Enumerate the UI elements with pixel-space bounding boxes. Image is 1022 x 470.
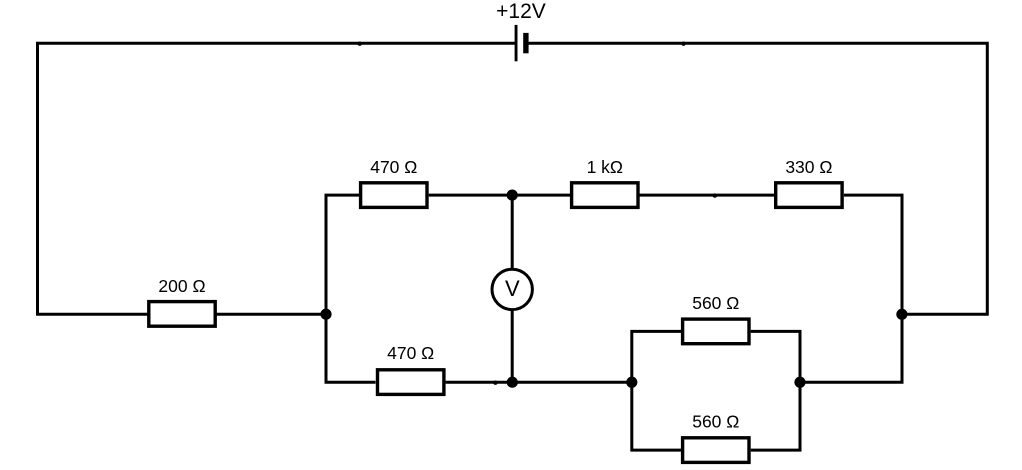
resistor R1 200 ohm: [149, 302, 215, 327]
wire junction nub on top wire right of battery: [681, 42, 685, 46]
node E junction dot: [626, 377, 637, 388]
wire from node E down then right to 560 ohm bottom left terminal: [632, 382, 681, 450]
wire from battery positive plate, left along top, down left side, to 200 ohm resistor left terminal: [38, 43, 517, 314]
wire from 470 ohm bottom right terminal to node C: [446, 381, 513, 384]
wire from node A down to 470 ohm bottom resistor left terminal: [326, 314, 376, 382]
svg-text:+12V: +12V: [496, 0, 546, 23]
wire from 200 ohm right terminal to node A: [215, 313, 326, 316]
resistor R7 560 ohm (bottom of parallel pair): [683, 438, 749, 463]
wire from node D down and left to node F: [800, 314, 902, 382]
wire from 1 kohm right terminal to 330 ohm left terminal: [640, 194, 775, 197]
wire from node E up then right to 560 ohm top left terminal: [632, 331, 681, 382]
voltmeter top lead wire from node B: [511, 195, 514, 269]
wire from 560 ohm bottom right terminal up to node F: [751, 382, 800, 450]
wire junction nub on 1k-330 wire: [713, 193, 717, 197]
resistor R2 470 ohm (top): [361, 183, 427, 208]
voltmeter bottom lead wire to node C: [511, 310, 514, 382]
svg-text:200 Ω: 200 Ω: [158, 276, 205, 296]
node F junction dot: [794, 377, 805, 388]
wire from 470 ohm top right terminal to node B: [429, 194, 513, 197]
wire from 560 ohm top right terminal down to node F: [751, 331, 800, 382]
wire from battery negative plate, right along top, down right side, to node D: [527, 43, 988, 314]
svg-text:560 Ω: 560 Ω: [692, 293, 739, 313]
svg-text:560 Ω: 560 Ω: [692, 412, 739, 432]
resistor R4 330 ohm: [776, 183, 842, 208]
wire from 330 ohm right terminal down to node D: [844, 195, 902, 314]
node B junction dot: [507, 190, 518, 201]
resistor R5 470 ohm (bottom): [378, 370, 444, 395]
resistor R3 1 kohm: [572, 183, 638, 208]
wire from node B to 1 kohm left terminal: [512, 194, 570, 197]
battery V1 positive plate (long): [515, 25, 518, 61]
wire junction nub on top wire: [358, 42, 362, 46]
svg-text:470 Ω: 470 Ω: [387, 343, 434, 363]
svg-text:V: V: [505, 276, 520, 301]
node A junction dot: [320, 309, 331, 320]
wire junction nub on 470 bottom wire: [493, 381, 497, 385]
battery V1 negative plate (short thick): [523, 33, 528, 53]
node D junction dot: [896, 309, 907, 320]
node C junction dot: [507, 377, 518, 388]
svg-text:470 Ω: 470 Ω: [370, 157, 417, 177]
voltmeter M1 circle: [492, 269, 532, 309]
svg-text:1 kΩ: 1 kΩ: [587, 157, 623, 177]
wire from node A up to 470 ohm top resistor left terminal: [326, 195, 359, 314]
resistor R6 560 ohm (top of parallel pair): [683, 319, 749, 344]
svg-text:330 Ω: 330 Ω: [785, 157, 832, 177]
wire from node C to node E: [512, 381, 632, 384]
